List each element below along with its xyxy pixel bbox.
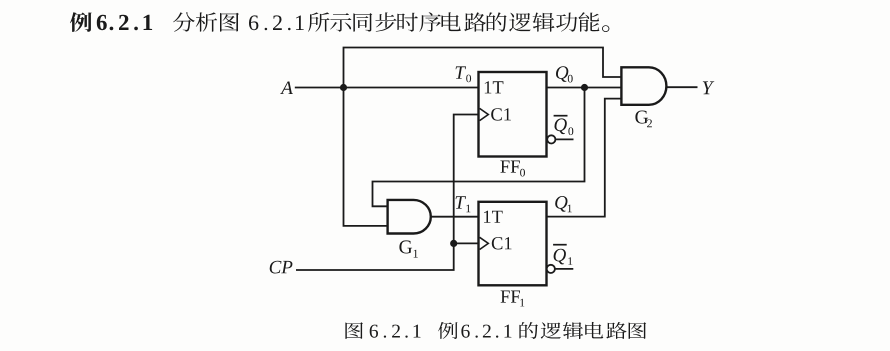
flip-flop FF0 box bbox=[479, 72, 547, 157]
label Q1 bbox=[555, 196, 572, 212]
label FF1 bbox=[501, 291, 525, 307]
FF0 pin label C1 bbox=[491, 108, 511, 120]
label CP (clock input) bbox=[270, 261, 293, 274]
title: bold 6.2.1 bbox=[97, 15, 152, 30]
node: junction on CP vertical bbox=[450, 240, 457, 247]
label Q0-bar bbox=[555, 118, 574, 135]
FF1 clock triangle bbox=[480, 237, 489, 249]
wire: input A to FF0 T input bbox=[295, 87, 479, 89]
flip-flop FF1 box bbox=[479, 202, 547, 285]
label T0 bbox=[456, 66, 472, 82]
label T1 bbox=[456, 196, 471, 212]
title: 所示同步时序电路的逻辑功能 bbox=[308, 12, 599, 32]
wire: CP branch to FF1 C1 input bbox=[454, 242, 479, 244]
FF1 pin label C1 bbox=[492, 237, 512, 249]
caption: second 6.2.1 bbox=[461, 325, 511, 338]
title: 6.2.1 bbox=[249, 15, 304, 30]
label G1 bbox=[399, 240, 417, 257]
FF0 complement bubble for Q0-bar bbox=[547, 135, 555, 143]
node: junction on Q0 wire bbox=[581, 84, 588, 91]
AND gate G1 bbox=[388, 200, 431, 234]
wire: A junction down to G1 bottom input bbox=[344, 88, 388, 226]
FF1 complement bubble for Q1-bar bbox=[547, 265, 555, 273]
title: full stop 。 bbox=[602, 25, 609, 32]
wire: A junction up and over to G2 top input bbox=[344, 48, 622, 88]
title: 分析图 bbox=[173, 12, 239, 31]
overline of Q1-bar bbox=[553, 244, 567, 246]
title: bold 例 bbox=[70, 12, 92, 32]
wire: Q1 to G2 bottom input bbox=[547, 99, 622, 217]
label FF0 bbox=[500, 161, 525, 177]
label Q1-bar bbox=[554, 249, 573, 265]
wire: Q0-bar stub bbox=[556, 138, 574, 140]
wire: Q0 to G2 middle input bbox=[547, 87, 622, 89]
wire: G2 output to Y bbox=[666, 86, 697, 88]
wire: Q0 feedback to G1 top input bbox=[373, 88, 585, 207]
caption: 图 bbox=[345, 322, 363, 339]
label G2 bbox=[635, 111, 652, 128]
FF0 pin label 1T bbox=[485, 81, 504, 93]
caption: 例 bbox=[438, 322, 458, 339]
FF0 clock triangle bbox=[480, 108, 489, 120]
AND gate G2 bbox=[621, 67, 666, 105]
node: junction on A line bbox=[340, 84, 347, 91]
overline of Q0-bar bbox=[554, 115, 568, 117]
caption: 6.2.1 bbox=[370, 325, 421, 338]
FF1 pin label 1T bbox=[484, 211, 503, 223]
wire: CP up to FF0 C1 input bbox=[296, 115, 479, 271]
caption: 的逻辑电路图 bbox=[519, 322, 646, 339]
label Q0 bbox=[556, 66, 573, 82]
label Y (output) bbox=[703, 81, 715, 94]
label A (input) bbox=[280, 82, 293, 95]
wire: G1 output to FF1 T input bbox=[431, 216, 479, 218]
wire: Q1-bar stub bbox=[555, 268, 573, 270]
